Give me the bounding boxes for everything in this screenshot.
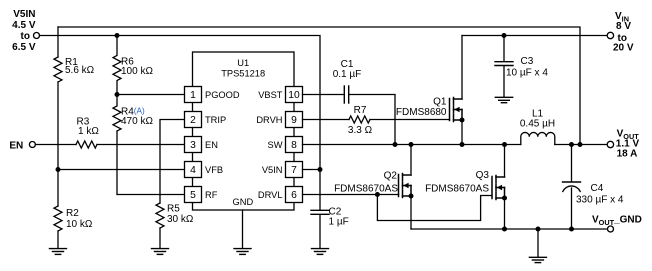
node Q2 source: [409, 194, 414, 199]
text C3 value: [506, 56, 548, 79]
wire power ground bus: [411, 228, 608, 230]
pin 4 box: [185, 162, 202, 178]
resistor R3: [76, 141, 97, 148]
pin 10 box: [286, 87, 303, 103]
text C1 value: [333, 59, 362, 80]
svg-text:8: 8: [291, 140, 297, 151]
op-amp U1 TPS51218 body: [193, 52, 295, 210]
text R1 value: [65, 57, 95, 76]
text R3 value: [77, 117, 100, 138]
svg-text:to: to: [21, 31, 30, 42]
text pin numbers left: [190, 90, 196, 201]
svg-text:TPS51218: TPS51218: [221, 69, 265, 79]
node PGOOD/R6/R4 junction: [115, 92, 120, 97]
svg-text:Q3: Q3: [476, 170, 490, 181]
svg-text:10 µF x 4: 10 µF x 4: [506, 68, 548, 79]
resistor R1: [54, 57, 62, 82]
node VIN/C3 junction: [502, 33, 507, 38]
svg-text:3.3 Ω: 3.3 Ω: [348, 125, 373, 136]
svg-text:VFB: VFB: [205, 165, 223, 175]
resistor R4: [113, 95, 121, 132]
wire R2 to ground: [57, 231, 59, 248]
svg-text:1 kΩ: 1 kΩ: [78, 126, 99, 137]
node VOUT/C4 junction: [569, 142, 574, 147]
wire R1 column upper: [57, 27, 59, 57]
svg-text:EN: EN: [205, 140, 218, 150]
text Q1 designator: [396, 97, 447, 119]
svg-text:3: 3: [190, 140, 196, 151]
wire C3 to ground: [503, 66, 505, 97]
node Q3 source stub: [502, 196, 507, 201]
text R5 value: [167, 204, 194, 226]
svg-text:Q1: Q1: [433, 97, 447, 108]
text C4 value: [576, 183, 624, 206]
wire SW: [303, 144, 521, 146]
pin 5 box: [185, 187, 202, 203]
svg-text:7: 7: [291, 165, 297, 176]
svg-text:8 V: 8 V: [616, 21, 631, 32]
svg-text:4: 4: [190, 165, 196, 176]
svg-text:1: 1: [190, 90, 196, 101]
text R2 value: [66, 208, 93, 230]
text terminal VIN label: [613, 11, 634, 54]
wire Q1 source to SW: [461, 120, 463, 145]
node Q3 source/bus: [502, 227, 507, 232]
wire DRVH: [303, 119, 350, 121]
pin 9 box: [286, 112, 303, 128]
text terminal V5IN label: [12, 9, 36, 53]
wire V5IN terminal to corner: [40, 36, 321, 170]
text pin numbers right: [288, 90, 300, 201]
wire Q1 drain to VIN: [461, 36, 463, 100]
wire DRVL: [303, 194, 399, 196]
capacitor C4: [563, 145, 581, 230]
wire C2 to ground: [319, 215, 321, 248]
svg-text:C4: C4: [591, 183, 604, 194]
svg-text:R2: R2: [66, 208, 79, 219]
ground R2: [50, 249, 67, 255]
terminal EN: [29, 142, 35, 148]
resistor R7: [349, 116, 370, 123]
svg-text:10 kΩ: 10 kΩ: [66, 219, 93, 230]
pin 8 box: [286, 137, 303, 153]
svg-text:1 µF: 1 µF: [329, 217, 349, 228]
svg-text:4.5 V: 4.5 V: [12, 20, 36, 31]
svg-text:VBST: VBST: [258, 90, 283, 100]
node Q1 source stub: [460, 118, 465, 123]
svg-text:Q2: Q2: [384, 171, 398, 182]
wire R1 to VFB node: [57, 82, 59, 170]
wire R5 to ground: [159, 228, 161, 248]
svg-text:20 V: 20 V: [613, 43, 634, 54]
node SW/Q2 drain: [409, 142, 414, 147]
node VFB/R1/R2 junction: [56, 167, 61, 172]
capacitor C2: [311, 210, 329, 214]
pin 2 box: [185, 112, 202, 128]
inductor L1: [521, 132, 555, 144]
svg-text:FDMS8680: FDMS8680: [396, 107, 447, 118]
svg-text:RF: RF: [205, 190, 218, 200]
svg-text:10: 10: [288, 90, 300, 101]
svg-text:R5: R5: [167, 204, 180, 215]
svg-text:V5IN: V5IN: [13, 9, 35, 20]
node C4/bus junction: [569, 227, 574, 232]
wire Q2 source to bus: [410, 196, 412, 229]
wire R7 to Q1 gate: [370, 119, 450, 121]
text R7 value: [348, 105, 373, 136]
svg-text:5.6 kΩ: 5.6 kΩ: [65, 65, 95, 76]
ground C2: [312, 249, 329, 255]
svg-text:C3: C3: [521, 56, 534, 67]
svg-text:6.5 V: 6.5 V: [12, 42, 36, 53]
wire EN to R3: [35, 144, 76, 146]
wire DRVL underpass to Q3 gate: [377, 195, 492, 221]
wire Q3 source to bus: [504, 198, 506, 229]
text L1 value: [520, 109, 555, 130]
transistor Q2: [399, 174, 412, 198]
text C2 value: [329, 207, 349, 228]
resistor R2: [54, 206, 62, 231]
svg-text:5: 5: [190, 190, 196, 201]
svg-text:18 A: 18 A: [617, 148, 638, 159]
terminal VOUT: [607, 141, 613, 147]
wire VBST: [303, 94, 344, 96]
svg-text:V5IN: V5IN: [262, 165, 283, 175]
svg-text:R7: R7: [354, 105, 367, 116]
pin 3 box: [185, 137, 202, 153]
text R6 value: [121, 57, 153, 78]
wire R4 to RF: [117, 131, 185, 195]
node SW/Q3 drain: [502, 142, 507, 147]
svg-text:100 kΩ: 100 kΩ: [121, 66, 153, 77]
text terminal VOUT label: [616, 128, 640, 159]
svg-text:PGOOD: PGOOD: [205, 90, 240, 100]
wire C1 to SW: [350, 95, 396, 145]
wire Q2 drain: [410, 145, 412, 176]
svg-text:EN: EN: [9, 141, 23, 152]
wire V5IN to pin 7: [303, 169, 321, 171]
wire L1 to VOUT: [555, 144, 607, 146]
wire bus ground stem: [537, 229, 539, 257]
terminal V5IN: [34, 33, 40, 39]
ground U1: [234, 249, 251, 255]
svg-text:TRIP: TRIP: [205, 115, 226, 125]
wire VOUT top sense line: [58, 27, 580, 145]
svg-text:30 kΩ: 30 kΩ: [167, 214, 194, 225]
svg-text:9: 9: [291, 115, 297, 126]
text U1 designator: [221, 58, 265, 79]
text Q2 designator: [334, 171, 398, 195]
terminal VOUT_GND: [608, 226, 614, 232]
wire Q3 drain: [504, 145, 506, 178]
pin 1 box: [185, 87, 202, 103]
wire C3 column: [503, 36, 505, 62]
svg-text:DRVL: DRVL: [258, 190, 283, 200]
svg-text:FDMS8670AS: FDMS8670AS: [425, 184, 489, 195]
transistor Q3: [492, 176, 505, 200]
wire TRIP: [160, 120, 185, 204]
capacitor C3: [495, 62, 513, 66]
node DRVL branch: [375, 192, 380, 197]
wire PGOOD: [117, 94, 185, 96]
node C1/SW junction: [393, 142, 398, 147]
svg-text:470 kΩ: 470 kΩ: [121, 116, 153, 127]
pin 7 box: [286, 162, 303, 178]
svg-text:GND: GND: [233, 197, 254, 207]
svg-text:DRVH: DRVH: [256, 115, 282, 125]
svg-text:SW: SW: [268, 140, 283, 150]
resistor R5: [156, 203, 164, 228]
node SW/Q1 source: [460, 142, 465, 147]
svg-text:U1: U1: [237, 58, 249, 68]
svg-text:VOUT_GND: VOUT_GND: [592, 215, 642, 228]
wire GND stem of U1: [242, 210, 244, 248]
pin 6 box: [286, 187, 303, 203]
wire VFB node to R2: [57, 170, 59, 207]
resistor R6: [113, 36, 121, 95]
wire pin7 node down to C2: [319, 170, 321, 211]
svg-text:0.45 µH: 0.45 µH: [520, 119, 555, 130]
svg-text:6: 6: [291, 190, 297, 201]
svg-text:2: 2: [190, 115, 196, 126]
text pin names left: [205, 90, 240, 200]
wire VFB: [58, 169, 185, 171]
node V5IN/C2 junction: [318, 167, 323, 172]
text Q3 designator: [425, 170, 489, 195]
wire VIN: [462, 35, 607, 37]
node VOUT top line junction: [578, 142, 583, 147]
svg-text:0.1 µF: 0.1 µF: [333, 69, 362, 80]
wire R3 to pin 3: [97, 144, 185, 146]
ground power: [529, 257, 546, 262]
node bus/ground stem: [536, 227, 541, 232]
node V5IN/R6 junction: [115, 33, 120, 38]
transistor Q1: [450, 98, 463, 122]
svg-text:330 µF x 4: 330 µF x 4: [576, 195, 624, 206]
ground R5: [152, 249, 169, 255]
text R4 value: [121, 106, 153, 127]
svg-text:FDMS8670AS: FDMS8670AS: [334, 184, 398, 195]
text pin names right: [256, 90, 282, 200]
capacitor C1: [344, 86, 348, 103]
ground C3: [495, 97, 512, 102]
terminal VIN: [607, 32, 613, 38]
